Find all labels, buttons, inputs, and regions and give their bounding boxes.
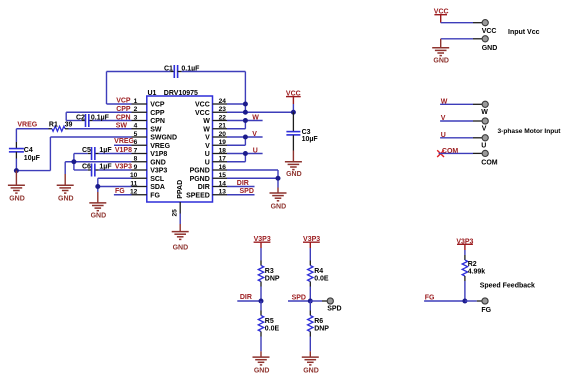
svg-text:39: 39 [65, 122, 73, 129]
svg-text:GND: GND [286, 171, 302, 178]
no-connect X on COM [437, 150, 444, 157]
capacitor C6 1uF [82, 164, 112, 177]
svg-text:FG: FG [150, 192, 160, 199]
svg-text:21: 21 [219, 123, 227, 130]
power symbol V3P3 speed feedback [456, 238, 473, 250]
svg-text:C2: C2 [76, 114, 85, 121]
wire SPD node to connector [310, 300, 327, 302]
svg-text:24: 24 [219, 98, 227, 105]
svg-text:20: 20 [219, 131, 227, 138]
connector pin COM [481, 150, 498, 166]
resistor R1 39 [49, 122, 73, 132]
svg-text:SPEED: SPEED [186, 192, 210, 199]
junction FG node [462, 299, 467, 304]
power symbol V3P3 DIR column [254, 236, 271, 248]
wire VREG down to C4 [15, 129, 17, 149]
svg-text:4.99k: 4.99k [468, 268, 486, 275]
svg-text:6: 6 [134, 139, 138, 146]
net label FG at pin 12 [114, 188, 132, 195]
connector pin V [482, 118, 489, 133]
svg-text:U: U [205, 151, 210, 158]
U1 right pin numbers 24-13 [219, 98, 227, 196]
wire VREG to R1 [16, 128, 52, 130]
svg-text:W: W [252, 114, 259, 121]
capacitor C4 10uF [9, 147, 41, 162]
svg-text:14: 14 [219, 180, 227, 187]
svg-text:C1: C1 [164, 65, 173, 72]
resistor R6 DNP [308, 316, 330, 333]
wire W motor [440, 103, 482, 105]
svg-text:U1: U1 [148, 90, 157, 97]
svg-text:DIR: DIR [198, 184, 210, 191]
svg-text:CPN: CPN [150, 118, 165, 125]
svg-text:VREG: VREG [150, 143, 170, 150]
svg-text:W: W [203, 118, 210, 125]
svg-text:18: 18 [219, 147, 227, 154]
svg-text:0.0E: 0.0E [265, 325, 280, 332]
junction bypass cap ground [71, 159, 76, 164]
svg-text:COM: COM [481, 159, 498, 166]
U1 left pin stubs 1-12 [132, 104, 147, 195]
U1 right pin stubs 24-13 [213, 104, 228, 195]
svg-text:SW: SW [150, 126, 162, 133]
wire VCC to connector [441, 22, 482, 24]
svg-text:10µF: 10µF [24, 155, 41, 162]
svg-text:R5: R5 [265, 318, 274, 325]
net label VREG at pin 6 [114, 138, 135, 145]
net label DIR at pin 14 [227, 180, 255, 187]
svg-text:15: 15 [219, 172, 227, 179]
svg-text:PGND: PGND [190, 168, 210, 175]
svg-text:FG: FG [481, 307, 491, 314]
svg-text:SWGND: SWGND [150, 135, 177, 142]
resistor R3 DNP [258, 266, 280, 283]
wire R6 to ground [309, 332, 311, 352]
svg-text:CPP: CPP [150, 110, 165, 117]
svg-text:V: V [205, 135, 210, 142]
IC U1 DRV10975 [147, 90, 213, 202]
svg-text:3: 3 [134, 114, 138, 121]
wire CPN pin 3 [66, 120, 131, 122]
svg-text:3-phase Motor Input: 3-phase Motor Input [498, 128, 562, 135]
junction VCC pin24 [243, 102, 248, 107]
svg-text:Input Vcc: Input Vcc [508, 29, 540, 36]
svg-text:DIR: DIR [240, 294, 252, 301]
svg-text:R2: R2 [468, 261, 477, 268]
svg-text:U: U [205, 159, 210, 166]
svg-text:22: 22 [219, 114, 227, 121]
svg-text:DNP: DNP [314, 325, 329, 332]
capacitor C2 0.1uF [76, 114, 110, 127]
wire V3P3 pin 9 [74, 169, 132, 171]
svg-text:W: W [203, 126, 210, 133]
svg-text:VCC: VCC [195, 110, 210, 117]
wire SPD node to R6 [309, 301, 311, 316]
connector pin FG [481, 298, 491, 314]
wire DIR node to R5 [260, 301, 262, 316]
svg-text:C6: C6 [82, 164, 91, 171]
junction VCC at C3 [291, 110, 296, 115]
svg-text:DRV10975: DRV10975 [164, 90, 198, 97]
power symbol V3P3 SPD column [303, 236, 320, 248]
power symbol VCC input [434, 9, 449, 23]
wire CPP pin 2 [66, 112, 131, 120]
svg-text:25: 25 [171, 209, 178, 217]
wire V pins 20,19 [227, 137, 263, 145]
connector pin SPD [327, 298, 341, 313]
svg-text:1: 1 [134, 98, 138, 105]
svg-text:C4: C4 [24, 147, 33, 154]
junction PGND [276, 176, 281, 181]
wire V3P3 to R2 [464, 250, 466, 260]
svg-text:GND: GND [9, 195, 25, 202]
junction C4 ground node [14, 168, 19, 173]
wire FG node to connector [465, 300, 482, 302]
net label DIR [237, 294, 261, 301]
ground DIR column [253, 351, 270, 374]
svg-text:4: 4 [134, 123, 138, 130]
wire R3 to DIR node [260, 282, 262, 302]
svg-text:V: V [252, 131, 257, 138]
svg-text:DNP: DNP [265, 275, 280, 282]
svg-text:1µF: 1µF [99, 147, 112, 154]
U1 left pin names [150, 102, 177, 200]
svg-text:SPD: SPD [327, 306, 341, 313]
ground PGND [270, 188, 287, 211]
U1 left pin numbers 1-12 [130, 98, 138, 196]
wire U pins 18,17 [227, 154, 263, 162]
capacitor C5 1uF [82, 147, 112, 160]
wire R5 to ground [260, 332, 262, 352]
svg-text:V3P3: V3P3 [150, 168, 167, 175]
wire C1 to VCC column [178, 72, 246, 105]
svg-text:VCC: VCC [482, 28, 497, 35]
U1 right pin names [186, 102, 210, 200]
svg-text:V3P3: V3P3 [115, 163, 132, 170]
svg-text:GND: GND [91, 212, 107, 219]
svg-text:Speed Feedback: Speed Feedback [480, 282, 535, 289]
svg-text:V: V [205, 143, 210, 150]
net label SPD [288, 294, 310, 301]
junction V [243, 135, 248, 140]
svg-text:19: 19 [219, 139, 227, 146]
svg-text:GND: GND [303, 368, 319, 375]
svg-text:W: W [481, 109, 488, 116]
ground input connector [432, 39, 449, 65]
svg-text:U: U [253, 147, 258, 154]
wire R1 to SW pin 4 [65, 128, 132, 130]
ground below C3 [285, 151, 302, 179]
connector pin U [481, 135, 488, 150]
ground SCL/SDA [89, 192, 106, 219]
junction W [243, 118, 248, 123]
net label SPD at pin 13 [227, 188, 255, 195]
wire V3P3 to R4 [309, 248, 311, 266]
svg-text:R3: R3 [265, 268, 274, 275]
wire SDA pin 11 [98, 187, 132, 193]
svg-text:R6: R6 [314, 318, 323, 325]
svg-text:13: 13 [219, 189, 227, 196]
junction SPD node [308, 299, 313, 304]
svg-text:PPAD: PPAD [177, 180, 184, 199]
wire PGND pins 16,15 to ground [227, 170, 278, 188]
svg-text:R4: R4 [314, 268, 323, 275]
svg-text:GND: GND [433, 57, 449, 64]
wire VCC pins 24,23 [227, 104, 293, 112]
resistor R4 0.0E [308, 266, 329, 283]
connector pin W [481, 101, 488, 116]
junction U [243, 151, 248, 156]
svg-text:V: V [482, 126, 487, 133]
svg-text:VCC: VCC [195, 102, 210, 109]
svg-text:8: 8 [134, 156, 138, 163]
U1 pin PPAD (pin 25) [171, 180, 184, 217]
svg-text:7: 7 [134, 147, 138, 154]
svg-text:5: 5 [134, 131, 138, 138]
resistor R2 4.99k [462, 260, 485, 276]
svg-text:SDA: SDA [150, 184, 165, 191]
wire PPAD to ground [179, 214, 181, 225]
wire V1P8 pin 7 [74, 153, 132, 155]
svg-text:V1P8: V1P8 [115, 147, 132, 154]
net label FG [424, 295, 465, 302]
svg-text:0.0E: 0.0E [314, 275, 329, 282]
capacitor C3 10uF [286, 112, 318, 150]
svg-text:GND: GND [482, 45, 498, 52]
svg-text:GND: GND [150, 159, 166, 166]
svg-text:C3: C3 [302, 129, 311, 136]
junction SDA ground [95, 184, 100, 189]
ground pin 8 [57, 174, 74, 202]
svg-text:0.1µF: 0.1µF [91, 114, 110, 121]
wire R4 to SPD node [309, 282, 311, 302]
svg-text:V1P8: V1P8 [150, 151, 167, 158]
svg-text:10µF: 10µF [302, 136, 319, 143]
svg-text:PGND: PGND [190, 176, 210, 183]
connector pin GND [482, 36, 498, 52]
junction DIR node [259, 299, 264, 304]
svg-text:VREG: VREG [17, 121, 37, 128]
svg-text:R1: R1 [49, 122, 58, 129]
wire C4 to ground node [15, 152, 17, 171]
svg-text:U: U [481, 143, 486, 150]
svg-text:23: 23 [219, 106, 227, 113]
wire VCP net to C1 [107, 72, 175, 105]
ground SPD column [302, 351, 319, 374]
wire V motor [440, 120, 482, 122]
wire U motor [440, 137, 482, 139]
power symbol VCC right [286, 91, 301, 113]
wire GND to connector [441, 38, 482, 40]
wire SWGND pin 5 [16, 137, 131, 171]
svg-text:VREG: VREG [114, 138, 134, 145]
wire GND pin 8 [65, 154, 131, 175]
capacitor C1 0.1uF [164, 65, 200, 78]
svg-text:2: 2 [134, 106, 138, 113]
svg-text:1µF: 1µF [99, 164, 112, 171]
wire R2 to FG node [464, 276, 466, 301]
svg-text:GND: GND [173, 244, 189, 251]
wire V3P3 to R3 [260, 248, 262, 266]
wire SCL pin 10 [98, 178, 132, 186]
svg-text:GND: GND [271, 204, 287, 211]
connector pin VCC [482, 20, 497, 35]
svg-text:VCP: VCP [150, 102, 165, 109]
wire COM [439, 152, 483, 154]
svg-text:17: 17 [219, 156, 227, 163]
wire W pins 22,21 [227, 121, 263, 129]
svg-text:SCL: SCL [150, 176, 165, 183]
svg-text:16: 16 [219, 164, 227, 171]
svg-text:9: 9 [134, 164, 138, 171]
ground below C4 [8, 171, 25, 203]
svg-text:C5: C5 [82, 147, 91, 154]
ground PPAD [172, 224, 189, 251]
svg-text:GND: GND [254, 368, 270, 375]
resistor R5 0.0E [258, 316, 279, 333]
junction VCC pin23 [243, 110, 248, 115]
svg-text:GND: GND [58, 195, 74, 202]
